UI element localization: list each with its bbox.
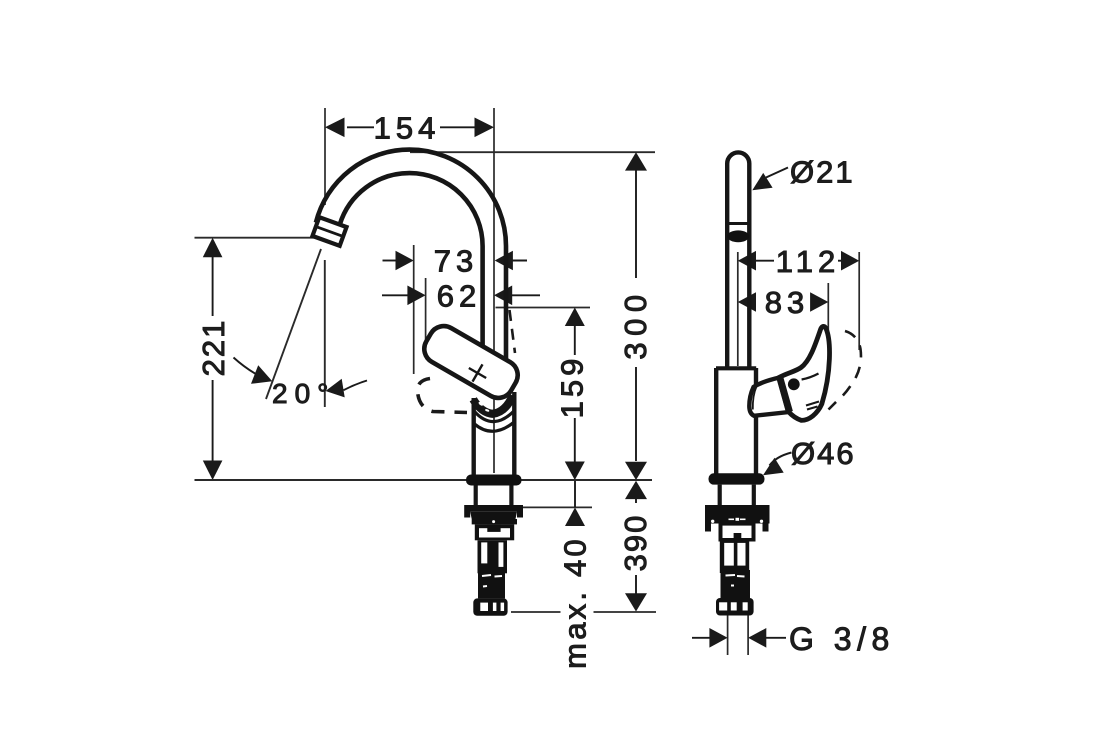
faucet front: ball joint ring arc 3 bbox=[475, 422, 515, 432]
faucet side: handle neck band bbox=[780, 377, 790, 413]
node: bottom reference line (390 / max.40 bottom) bbox=[511, 611, 656, 613]
svg-text:62: 62 bbox=[437, 279, 481, 314]
faucet front: mounting nut bbox=[475, 524, 514, 540]
svg-text:154: 154 bbox=[374, 111, 441, 146]
faucet side: riser pipe with rounded top bbox=[727, 152, 749, 368]
faucet front: dashed lowered-handle outline bbox=[417, 379, 467, 413]
faucet side: escutcheon bbox=[709, 473, 765, 484]
faucet front: lever handle bbox=[419, 321, 523, 404]
base line (countertop) bbox=[195, 479, 653, 481]
faucet front: hose connector bbox=[473, 598, 507, 615]
dimension G 3/8 bbox=[692, 637, 711, 639]
faucet front: ball joint ring arc 2 bbox=[474, 410, 514, 421]
faucet front: spout curved tube outer arc bbox=[316, 150, 506, 366]
svg-text:G 3/8: G 3/8 bbox=[789, 621, 895, 657]
faucet front: swivel ball joint swoosh bbox=[473, 396, 513, 414]
svg-text:221: 221 bbox=[196, 319, 231, 377]
dimension 154 bbox=[347, 126, 476, 128]
svg-text:73: 73 bbox=[434, 244, 478, 279]
faucet side: mounting shank bbox=[718, 485, 722, 505]
wire: 154 left extension line bbox=[324, 108, 326, 205]
faucet front: plus mark on handle bbox=[464, 359, 491, 386]
dimension 390 bbox=[635, 497, 637, 594]
faucet side: supply tubes / threaded rod bbox=[720, 542, 749, 574]
wire: 83 right extension line bbox=[827, 283, 829, 333]
faucet side: lever grip bbox=[779, 326, 830, 420]
faucet side: pivot dot bbox=[788, 378, 800, 390]
faucet front: body cylinder bbox=[472, 398, 476, 475]
node: spout outlet height reference line (221 top) bbox=[195, 237, 320, 239]
faucet side: body cylinder bbox=[714, 368, 718, 474]
dimension 83 bbox=[738, 292, 756, 312]
dimension 221 bbox=[212, 256, 214, 461]
faucet front: dashed raised position line bbox=[510, 310, 516, 353]
faucet side: handle front wedge bbox=[749, 378, 789, 416]
label diameter 46 leader bbox=[770, 453, 792, 466]
faucet side: grip hatch lines bbox=[806, 402, 819, 410]
svg-text:Ø21: Ø21 bbox=[790, 155, 855, 190]
wire: side pipe axis extension line bbox=[737, 252, 739, 366]
faucet side: grip detail arc bbox=[802, 374, 819, 380]
faucet side: joint ring line bbox=[728, 222, 750, 225]
faucet front: supply tubes / threaded rod bbox=[478, 540, 508, 573]
wire: 62 left extension line bbox=[425, 278, 427, 344]
svg-text:20°: 20° bbox=[272, 378, 335, 409]
faucet side: joint ellipse bbox=[727, 230, 749, 242]
svg-text:max. 40: max. 40 bbox=[558, 536, 593, 669]
wire: 20-degree slanted line bbox=[266, 249, 321, 399]
wire: 112 right extension line bbox=[858, 252, 860, 350]
faucet side: mounting flange bbox=[705, 505, 770, 532]
wire: 20-degree vertical reference line bbox=[324, 260, 326, 407]
faucet front: threaded section bbox=[478, 567, 505, 598]
wire: G3/8 left extension line bbox=[727, 616, 729, 656]
node: 159 top reference line bbox=[496, 307, 591, 309]
faucet front: mounting flange bbox=[464, 505, 523, 518]
faucet front: mounting shank bbox=[474, 486, 478, 506]
dimension 159 bbox=[574, 325, 576, 462]
svg-text:159: 159 bbox=[555, 355, 590, 419]
node: top height reference line (300 top) bbox=[410, 151, 655, 153]
svg-text:83: 83 bbox=[765, 285, 809, 320]
wire: spout pipe axis extension line bbox=[493, 108, 495, 473]
faucet front: outlet aerator tip bbox=[312, 217, 346, 246]
faucet side: hose connector bbox=[716, 598, 754, 616]
wire: 73 left extension line bbox=[413, 245, 415, 374]
dimension max. 40 bbox=[574, 480, 576, 507]
dimension 20 degrees: arc arrows bbox=[234, 358, 263, 378]
faucet side: dashed swing arc bbox=[829, 331, 861, 410]
faucet side: mounting nut bbox=[719, 524, 756, 542]
wire: G3/8 right extension line bbox=[747, 616, 749, 656]
dimension 73 bbox=[383, 260, 397, 262]
faucet front: spout curved tube inner arc bbox=[340, 173, 483, 354]
faucet front: escutcheon bbox=[466, 475, 522, 486]
faucet side: threaded section bbox=[721, 570, 751, 598]
dimension 112 bbox=[756, 260, 774, 262]
svg-text:Ø46: Ø46 bbox=[791, 436, 856, 471]
node: max.40 top reference line bbox=[513, 506, 592, 508]
label diameter 21 leader bbox=[766, 168, 788, 178]
svg-text:300: 300 bbox=[618, 288, 653, 359]
svg-text:390: 390 bbox=[618, 514, 653, 572]
svg-text:112: 112 bbox=[776, 244, 840, 279]
dimension 300 bbox=[635, 170, 637, 461]
dimension 62 bbox=[382, 294, 408, 296]
